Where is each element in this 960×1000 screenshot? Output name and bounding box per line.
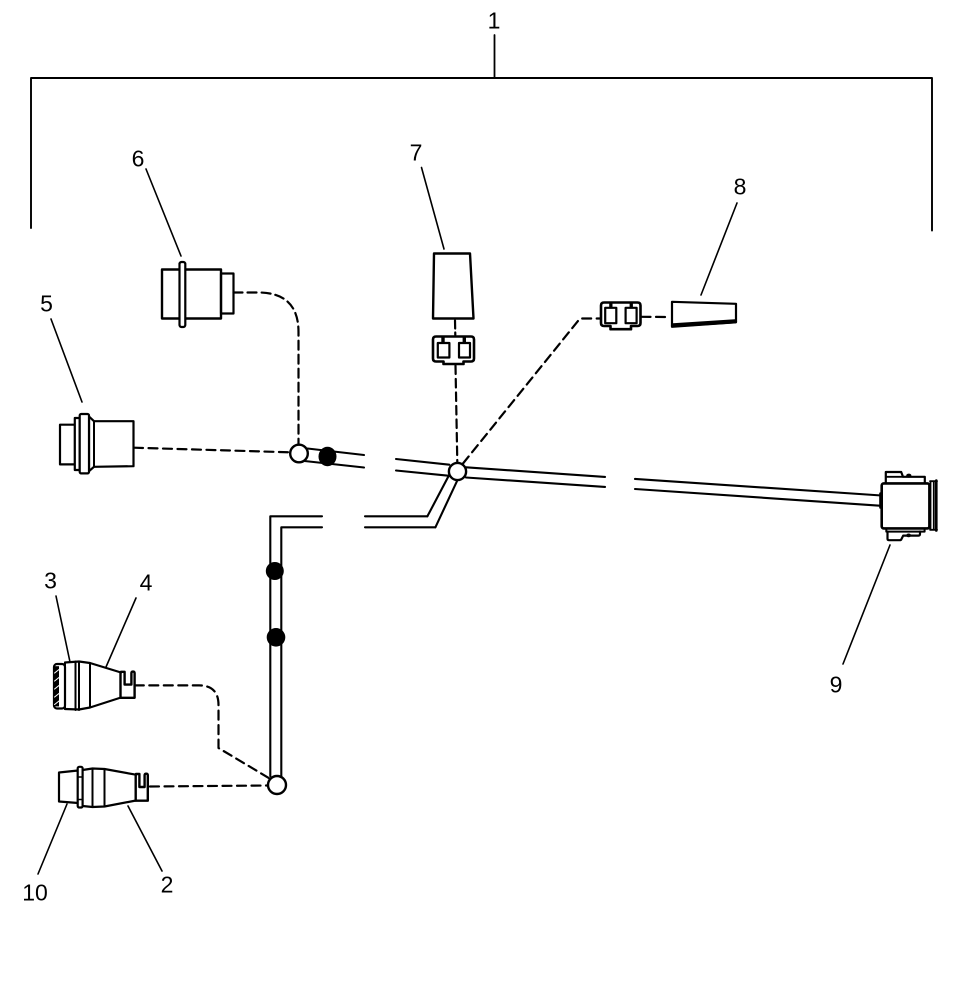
- svg-text:5: 5: [40, 291, 53, 317]
- connector C2 body: [83, 769, 137, 808]
- leader line for 10: [38, 804, 67, 874]
- connector C9 body: [882, 483, 930, 528]
- connector C8 terminal nub right: [630, 303, 633, 309]
- svg-text:8: 8: [734, 174, 747, 200]
- wire W5 from connector C5 to junction J1: [134, 448, 290, 453]
- leader line for 1: [494, 35, 496, 78]
- connector C2 body dividers: [93, 769, 105, 808]
- connector C9 ring block: [930, 481, 937, 530]
- connector C7 cavity right: [459, 343, 470, 358]
- leader line for 8: [701, 203, 737, 295]
- connector C8 terminal nub left: [609, 303, 612, 309]
- connector C9 wire boot: [879, 494, 882, 508]
- harness right pair segment b: [635, 479, 882, 506]
- cover 8 wedge: [672, 302, 736, 327]
- connector C7 cavity left: [438, 343, 450, 358]
- leader line for 5: [51, 319, 82, 402]
- connector C9 bottom tab: [888, 532, 921, 541]
- wire W2 connector C2 to junction J3: [150, 786, 267, 787]
- svg-text:3: 3: [44, 568, 57, 594]
- connector C8 cavity right: [626, 308, 637, 323]
- leader line for 2: [128, 806, 162, 871]
- svg-text:6: 6: [132, 146, 145, 172]
- svg-text:2: 2: [161, 872, 174, 898]
- leader line for 4: [106, 598, 136, 667]
- harness right pair segment a: [466, 467, 605, 487]
- tape marker T3: [267, 628, 286, 647]
- svg-text:1: 1: [488, 8, 501, 34]
- harness lower horizontal pair segment a: [365, 516, 435, 527]
- cover 8 thick base: [673, 321, 735, 325]
- connector C6 nose: [221, 274, 234, 314]
- wire W7a sensor to connector: [454, 321, 456, 336]
- connector C6 body: [162, 270, 221, 319]
- connector C5 body shoulder line: [93, 421, 95, 467]
- connector C4 body sections: [65, 662, 90, 711]
- junction J2: [449, 463, 466, 480]
- wire W4 connector C4 to junction J3: [135, 685, 271, 779]
- connector C2 hook terminal: [136, 774, 148, 801]
- tape marker T1: [319, 447, 337, 466]
- svg-text:9: 9: [830, 672, 843, 698]
- connector C5 rear cap: [60, 425, 75, 465]
- harness main upper pair segment b: [396, 459, 450, 476]
- junction J1: [290, 445, 308, 463]
- harness lower horizontal pair segment b and vertical drop: [270, 516, 322, 778]
- connector C7 terminal nub right: [463, 337, 466, 343]
- connector C9 ring right edge: [935, 481, 938, 531]
- bracket frame 1: [31, 78, 932, 231]
- leader line for 3: [56, 596, 70, 662]
- svg-text:4: 4: [140, 570, 153, 596]
- junction J3: [268, 776, 286, 794]
- connector C5 body: [89, 417, 134, 472]
- leader line for 9: [843, 545, 890, 664]
- connector C9 top dot: [906, 474, 911, 478]
- connector C5 flange small: [75, 418, 80, 470]
- sensor body 7: [433, 254, 474, 319]
- retainer 10 flange: [78, 767, 83, 808]
- connector C7 shell: [433, 337, 474, 365]
- svg-text:10: 10: [22, 880, 48, 906]
- wire W8a junction J2 to connector C8: [463, 319, 601, 464]
- retainer 10 cross lines: [78, 777, 83, 800]
- wire W8b connector C8 to cover: [642, 316, 669, 318]
- connector C9 bottom dot: [906, 534, 911, 538]
- wire W6 from connector C6 to junction J1: [234, 293, 299, 446]
- harness main upper pair segment a: [305, 449, 365, 468]
- tape marker T2: [266, 562, 284, 580]
- connector C9 top latch ledge: [886, 476, 903, 478]
- wire W7b connector C7 to junction J2: [456, 366, 458, 463]
- connector C5 flange large: [80, 414, 89, 473]
- svg-text:7: 7: [410, 140, 423, 166]
- connector C4 outline: [65, 662, 121, 710]
- connector C7 terminal nub left: [441, 337, 444, 343]
- connector C9 bottom band: [886, 529, 924, 532]
- cap 3 hatch: [55, 666, 59, 706]
- connector C8 shell: [601, 303, 641, 330]
- connector C2 rear rect: [59, 771, 78, 804]
- leader line for 6: [146, 169, 181, 256]
- connector C6 flange: [180, 262, 186, 327]
- leader line for 7: [422, 168, 445, 250]
- connector C8 cavity left: [605, 308, 616, 323]
- harness branch diagonal pair: [427, 476, 457, 528]
- connector C4 hook terminal: [121, 672, 135, 698]
- connector C9 top latch: [886, 472, 925, 483]
- cap 3: [54, 664, 65, 709]
